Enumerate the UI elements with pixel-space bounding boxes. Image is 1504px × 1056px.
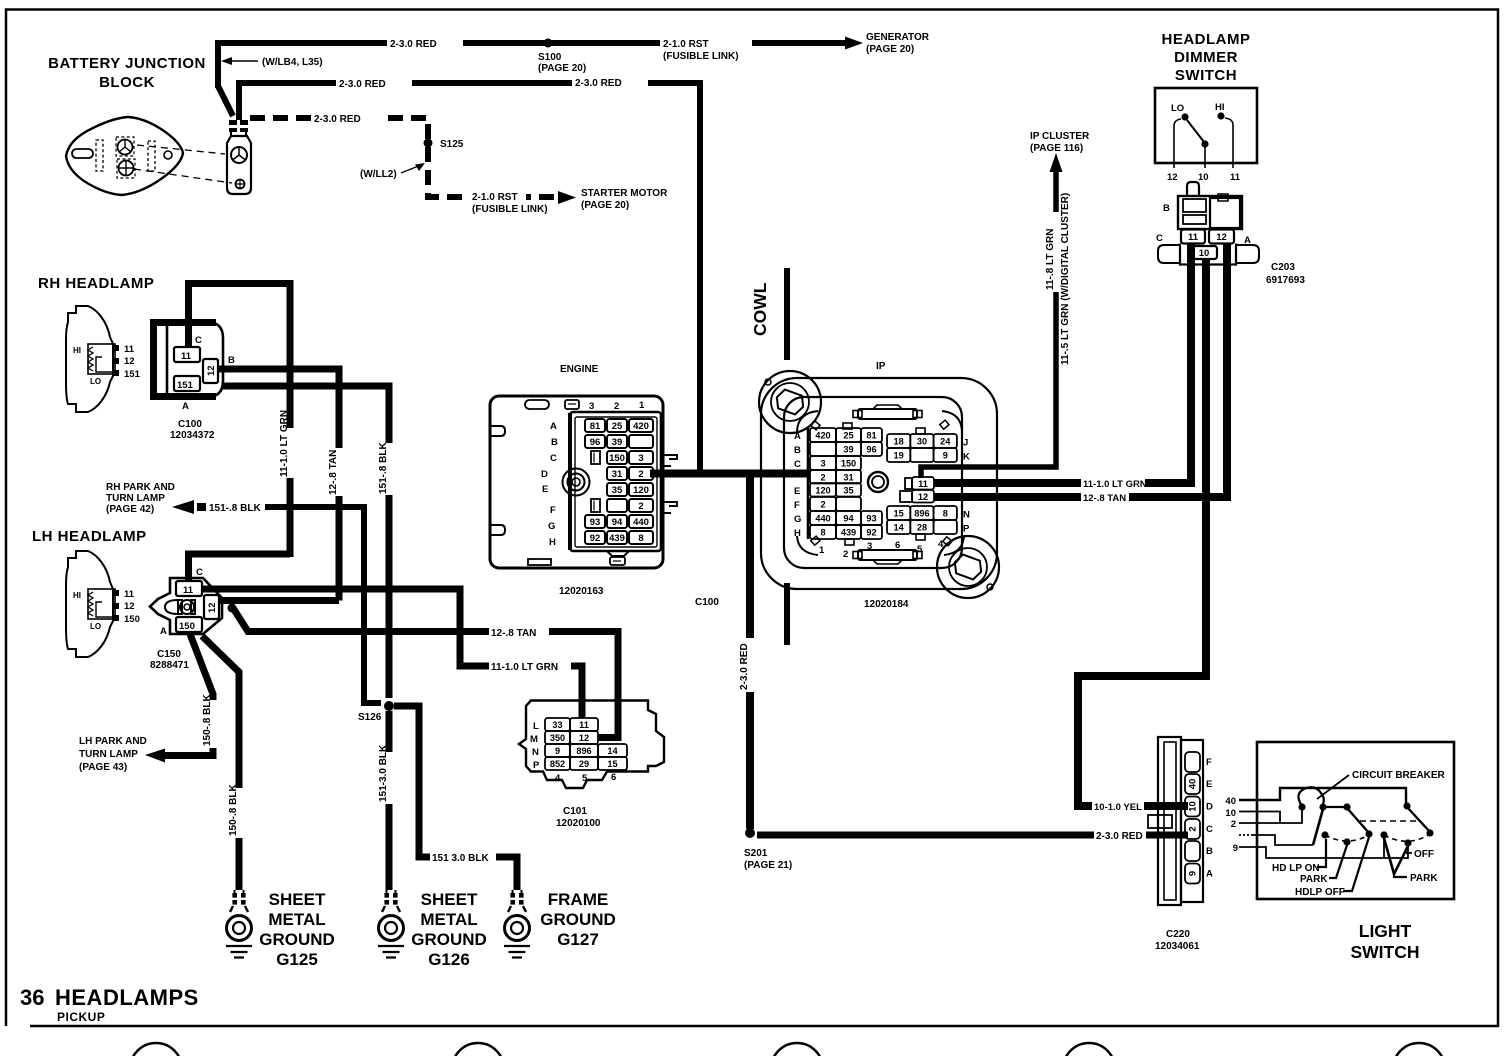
RH HEADLAMP title <box>38 275 154 292</box>
connector C203 <box>1156 182 1305 286</box>
svg-text:31: 31 <box>612 469 623 480</box>
svg-text:12: 12 <box>1216 232 1227 243</box>
svg-text:35: 35 <box>843 485 853 495</box>
svg-text:K: K <box>963 452 970 463</box>
svg-text:HEADLAMPS: HEADLAMPS <box>55 985 199 1010</box>
light switch internal wiring <box>1239 787 1434 858</box>
svg-text:H: H <box>794 528 801 539</box>
wire 12 TAN: corner into LH pin 12, splice dot, branch to C101 <box>219 601 618 738</box>
svg-text:439: 439 <box>841 528 856 538</box>
svg-text:RH HEADLAMP: RH HEADLAMP <box>38 275 154 292</box>
OFF label <box>1406 849 1434 860</box>
svg-text:L: L <box>533 721 539 732</box>
IP lower N/P grid <box>887 506 970 540</box>
svg-text:151-.8 BLK: 151-.8 BLK <box>378 442 389 494</box>
battery junction block body <box>66 117 183 195</box>
svg-text:9: 9 <box>943 451 948 461</box>
svg-text:5: 5 <box>917 544 923 555</box>
svg-text:94: 94 <box>843 514 854 524</box>
svg-text:29: 29 <box>579 759 589 769</box>
wire 2-3.0 RED battery to engine feed (corner x700) <box>239 75 700 472</box>
wire 10-1.0 YEL dimmer pin 10 to C220 <box>1078 259 1206 813</box>
IP part number <box>864 599 909 610</box>
svg-text:M: M <box>530 734 538 745</box>
svg-text:420: 420 <box>815 431 830 441</box>
svg-text:STARTER MOTOR: STARTER MOTOR <box>581 188 668 199</box>
svg-text:14: 14 <box>894 523 905 533</box>
ground G127 <box>504 890 616 958</box>
svg-text:GENERATOR: GENERATOR <box>866 32 930 43</box>
svg-text:12020100: 12020100 <box>556 818 601 829</box>
svg-text:439: 439 <box>609 533 625 544</box>
svg-text:6: 6 <box>895 540 900 551</box>
connector C220 <box>1148 737 1213 952</box>
svg-text:4: 4 <box>555 773 561 784</box>
RH headlamp bulb <box>66 306 141 412</box>
svg-text:11: 11 <box>124 589 135 600</box>
svg-text:CIRCUIT BREAKER: CIRCUIT BREAKER <box>1352 770 1446 781</box>
svg-text:151-3.0 BLK: 151-3.0 BLK <box>378 744 389 802</box>
svg-text:896: 896 <box>576 746 591 756</box>
IP left grid rows A-H <box>794 423 882 545</box>
leader (W/LB4,L35) <box>221 57 323 68</box>
svg-text:B: B <box>228 355 235 366</box>
ENGINE part number <box>559 586 604 597</box>
wire 12-.8 TAN dimmer pin 12 to IP <box>934 243 1227 504</box>
svg-text:2: 2 <box>843 549 848 560</box>
svg-text:12-.8 TAN: 12-.8 TAN <box>491 628 536 639</box>
svg-text:D: D <box>541 469 548 480</box>
svg-text:C100: C100 <box>178 419 202 430</box>
svg-text:150: 150 <box>841 459 856 469</box>
svg-text:H: H <box>549 537 556 548</box>
RH park and turn lamp arrow <box>106 482 381 703</box>
svg-text:3: 3 <box>820 459 825 469</box>
wire 11 GRN: RH C100 pin 11 up/over/down <box>189 284 298 558</box>
svg-text:(PAGE 43): (PAGE 43) <box>79 762 127 773</box>
C100 bulkhead label <box>695 597 719 608</box>
svg-text:PARK: PARK <box>1300 874 1328 885</box>
svg-text:93: 93 <box>590 517 601 528</box>
svg-text:12-.8 TAN: 12-.8 TAN <box>328 450 339 495</box>
svg-text:30: 30 <box>917 437 927 447</box>
connector C101 <box>519 701 664 830</box>
HDLP OFF label <box>1295 837 1369 898</box>
svg-text:24: 24 <box>940 437 951 447</box>
svg-text:C: C <box>196 567 203 578</box>
svg-text:11: 11 <box>1230 172 1241 183</box>
dashed wire 2-3.0 RED to S125 <box>250 111 668 215</box>
IP bottom pin numbers <box>819 539 944 560</box>
svg-text:2-3.0 RED: 2-3.0 RED <box>1096 831 1143 842</box>
svg-text:RH PARK AND: RH PARK AND <box>106 482 175 493</box>
svg-text:C220: C220 <box>1166 929 1190 940</box>
wire 151 3.0 BLK S126 branch to ground G127 <box>394 706 517 890</box>
svg-text:350: 350 <box>550 733 565 743</box>
svg-text:3: 3 <box>867 541 872 552</box>
svg-text:F: F <box>550 505 556 516</box>
svg-text:8: 8 <box>638 533 643 544</box>
svg-text:120: 120 <box>815 485 830 495</box>
svg-text:COWL: COWL <box>750 282 770 336</box>
svg-text:F: F <box>1206 757 1212 768</box>
svg-text:B: B <box>551 437 558 448</box>
svg-text:(W/LL2): (W/LL2) <box>360 169 397 180</box>
svg-text:(PAGE 21): (PAGE 21) <box>744 860 792 871</box>
svg-text:C: C <box>1156 233 1163 244</box>
splice S126 <box>358 701 394 723</box>
svg-text:2: 2 <box>1231 819 1236 830</box>
svg-text:F: F <box>794 500 800 511</box>
svg-text:METAL: METAL <box>268 910 325 929</box>
svg-text:S125: S125 <box>440 139 464 150</box>
svg-text:2: 2 <box>638 469 643 480</box>
svg-text:35: 35 <box>612 485 623 496</box>
svg-text:2-3.0 RED: 2-3.0 RED <box>339 79 386 90</box>
svg-text:BLOCK: BLOCK <box>99 74 155 91</box>
svg-text:15: 15 <box>894 509 904 519</box>
svg-text:19: 19 <box>894 451 904 461</box>
svg-text:(PAGE 42): (PAGE 42) <box>106 504 154 515</box>
svg-text:LO: LO <box>90 622 101 631</box>
ground G126 <box>378 890 487 969</box>
svg-text:LO: LO <box>1171 103 1184 114</box>
svg-text:150: 150 <box>179 621 195 632</box>
svg-text:D: D <box>1206 802 1213 813</box>
svg-text:C150: C150 <box>157 649 181 660</box>
svg-text:2: 2 <box>820 472 825 482</box>
svg-text:10: 10 <box>1188 801 1199 812</box>
svg-text:A: A <box>794 431 801 442</box>
svg-text:92: 92 <box>590 533 601 544</box>
svg-text:31: 31 <box>843 472 853 482</box>
battery terminal lug <box>227 120 251 194</box>
svg-text:420: 420 <box>633 421 649 432</box>
svg-text:A: A <box>160 626 167 637</box>
svg-text:25: 25 <box>612 421 623 432</box>
LH headlamp bulb <box>66 551 140 657</box>
svg-text:LH PARK AND: LH PARK AND <box>79 736 147 747</box>
svg-text:(W/LB4, L35): (W/LB4, L35) <box>262 57 323 68</box>
ENGINE label <box>560 364 599 375</box>
wire 150 BLK branch down to ground G125 <box>202 636 246 890</box>
svg-text:12-.8 TAN: 12-.8 TAN <box>1083 493 1126 504</box>
svg-text:SHEET: SHEET <box>269 890 326 909</box>
wire 2-3.0 RED battery to S100/generator <box>218 32 930 116</box>
svg-text:2-3.0 RED: 2-3.0 RED <box>390 39 437 50</box>
COWL bulkhead line and label <box>750 268 787 645</box>
svg-text:B: B <box>794 445 801 456</box>
IP right J/K grid <box>887 428 970 463</box>
svg-text:15: 15 <box>607 759 617 769</box>
wire 2-3.0 RED engine D to IP D with S201 branch <box>650 474 1188 872</box>
svg-text:FRAME: FRAME <box>548 890 608 909</box>
light switch terminals <box>1225 796 1238 854</box>
svg-text:2: 2 <box>614 401 619 412</box>
svg-text:B: B <box>1206 846 1213 857</box>
svg-text:GROUND: GROUND <box>540 910 616 929</box>
svg-text:2: 2 <box>820 500 825 510</box>
svg-text:LO: LO <box>90 377 101 386</box>
svg-text:PARK: PARK <box>1410 873 1438 884</box>
svg-text:2-3.0 RED: 2-3.0 RED <box>575 78 622 89</box>
svg-text:C: C <box>1206 824 1213 835</box>
LH HEADLAMP title <box>32 528 147 545</box>
svg-text:1: 1 <box>639 400 645 411</box>
svg-text:G: G <box>794 514 801 525</box>
svg-text:S201: S201 <box>744 848 768 859</box>
wire 150 BLK branch to LH park arrow <box>79 634 220 773</box>
svg-text:12: 12 <box>207 602 218 613</box>
svg-text:(FUSIBLE LINK): (FUSIBLE LINK) <box>663 51 739 62</box>
headlamp dimmer switch title <box>1162 31 1251 84</box>
svg-text:2: 2 <box>638 501 643 512</box>
IP connector outer body <box>759 361 999 598</box>
light switch title <box>1350 921 1419 962</box>
svg-text:(FUSIBLE LINK): (FUSIBLE LINK) <box>472 204 548 215</box>
wire to IP cluster with arrow <box>921 131 1090 478</box>
svg-text:92: 92 <box>866 528 876 538</box>
ENGINE fuse block outer body <box>490 396 663 568</box>
svg-text:12: 12 <box>1167 172 1178 183</box>
svg-text:6917693: 6917693 <box>1266 275 1305 286</box>
svg-text:12034061: 12034061 <box>1155 941 1200 952</box>
svg-text:2: 2 <box>1188 826 1199 831</box>
svg-text:94: 94 <box>612 517 623 528</box>
svg-text:G: G <box>548 521 555 532</box>
svg-text:12020184: 12020184 <box>864 599 909 610</box>
wire 11 GRN: down into LH pin 11 and out right to C101 <box>189 554 583 718</box>
svg-text:N: N <box>963 510 970 521</box>
svg-text:TURN LAMP: TURN LAMP <box>79 749 138 760</box>
svg-text:440: 440 <box>815 514 830 524</box>
svg-text:11-.8 LT GRN: 11-.8 LT GRN <box>1045 229 1056 291</box>
svg-text:E: E <box>794 486 800 497</box>
svg-text:3: 3 <box>589 401 594 412</box>
svg-text:81: 81 <box>590 421 601 432</box>
svg-text:BATTERY JUNCTION: BATTERY JUNCTION <box>48 55 206 72</box>
svg-text:C203: C203 <box>1271 262 1295 273</box>
svg-text:OFF: OFF <box>1414 849 1434 860</box>
IP pins 11/12 boxes <box>900 477 934 503</box>
svg-text:J: J <box>963 438 968 449</box>
svg-text:11-1.0 LT GRN: 11-1.0 LT GRN <box>1083 479 1147 490</box>
svg-text:E: E <box>1206 779 1212 790</box>
svg-text:150: 150 <box>124 614 140 625</box>
svg-text:150: 150 <box>609 453 625 464</box>
arrow to generator <box>845 37 863 50</box>
arrow to starter motor <box>470 190 526 202</box>
svg-text:12: 12 <box>124 601 135 612</box>
svg-text:SWITCH: SWITCH <box>1350 942 1419 962</box>
svg-text:151: 151 <box>177 380 194 391</box>
svg-text:(PAGE 116): (PAGE 116) <box>1030 143 1083 154</box>
connector C100 (RH headlamp) <box>154 322 236 441</box>
svg-text:3: 3 <box>638 453 643 464</box>
light switch box <box>1257 742 1454 899</box>
svg-text:11: 11 <box>1188 232 1199 243</box>
svg-text:11-1.0 LT GRN: 11-1.0 LT GRN <box>279 410 290 477</box>
svg-text:9: 9 <box>555 746 560 756</box>
svg-text:2-1.0 RST: 2-1.0 RST <box>472 192 518 203</box>
svg-text:10-1.0 YEL: 10-1.0 YEL <box>1094 802 1142 813</box>
battery junction block title <box>48 55 206 91</box>
svg-text:10: 10 <box>1199 248 1210 259</box>
svg-text:40: 40 <box>1225 796 1236 807</box>
svg-text:10: 10 <box>1198 172 1209 183</box>
svg-text:P: P <box>963 524 970 535</box>
svg-text:S126: S126 <box>358 712 382 723</box>
svg-text:C100: C100 <box>695 597 719 608</box>
svg-text:12: 12 <box>206 365 217 376</box>
svg-text:120: 120 <box>633 485 649 496</box>
svg-text:LIGHT: LIGHT <box>1359 921 1412 941</box>
svg-text:N: N <box>532 747 539 758</box>
svg-text:151: 151 <box>124 369 141 380</box>
svg-text:93: 93 <box>866 514 876 524</box>
svg-text:8: 8 <box>820 528 825 538</box>
binder punch holes bottom <box>130 1043 1445 1056</box>
svg-text:2-3.0 RED: 2-3.0 RED <box>314 114 361 125</box>
svg-text:8288471: 8288471 <box>150 660 189 671</box>
svg-text:B: B <box>1163 203 1170 214</box>
svg-text:4: 4 <box>938 539 944 550</box>
ENGINE fuse cells <box>585 419 653 544</box>
svg-text:A: A <box>550 421 557 432</box>
svg-text:11: 11 <box>124 344 135 355</box>
svg-text:440: 440 <box>633 517 649 528</box>
svg-text:PICKUP: PICKUP <box>57 1010 105 1024</box>
svg-text:A: A <box>1206 869 1213 880</box>
svg-text:11-.5 LT GRN (W/DIGITAL CLUSTE: 11-.5 LT GRN (W/DIGITAL CLUSTER) <box>1060 193 1071 365</box>
svg-text:9: 9 <box>1188 871 1199 876</box>
svg-text:A: A <box>182 401 189 412</box>
svg-text:5: 5 <box>582 773 588 784</box>
svg-text:HI: HI <box>73 346 81 355</box>
ENGINE fuse panel inner <box>570 412 677 551</box>
svg-text:G125: G125 <box>276 950 318 969</box>
svg-text:HEADLAMP: HEADLAMP <box>1162 31 1251 48</box>
HD LP ON label <box>1272 839 1326 874</box>
svg-text:36: 36 <box>20 985 44 1010</box>
svg-text:LH HEADLAMP: LH HEADLAMP <box>32 528 147 545</box>
svg-text:39: 39 <box>612 437 623 448</box>
svg-text:HI: HI <box>1215 102 1225 113</box>
svg-text:S100: S100 <box>538 52 562 63</box>
wire 11-1.0 LT GRN dimmer pin 11 to IP <box>934 243 1191 490</box>
dashed leader lines block to terminal <box>134 145 232 183</box>
svg-text:IP: IP <box>876 361 886 372</box>
svg-text:39: 39 <box>843 445 853 455</box>
svg-text:HD LP ON: HD LP ON <box>1272 863 1320 874</box>
svg-text:9: 9 <box>1233 843 1238 854</box>
svg-text:SWITCH: SWITCH <box>1175 67 1237 84</box>
PARK label left <box>1300 845 1347 885</box>
svg-text:12034372: 12034372 <box>170 430 215 441</box>
svg-text:1: 1 <box>819 545 825 556</box>
svg-text:12020163: 12020163 <box>559 586 604 597</box>
svg-text:ENGINE: ENGINE <box>560 364 599 375</box>
svg-text:HI: HI <box>73 591 81 600</box>
svg-text:150-.8 BLK: 150-.8 BLK <box>202 694 213 746</box>
svg-text:(PAGE 20): (PAGE 20) <box>581 200 629 211</box>
svg-text:150-.8 BLK: 150-.8 BLK <box>228 784 239 836</box>
svg-text:852: 852 <box>550 759 565 769</box>
svg-text:(PAGE 20): (PAGE 20) <box>538 63 586 74</box>
svg-text:14: 14 <box>607 746 618 756</box>
svg-text:12: 12 <box>918 492 928 502</box>
svg-text:GROUND: GROUND <box>259 930 335 949</box>
svg-text:8: 8 <box>943 509 948 519</box>
svg-text:2-3.0 RED: 2-3.0 RED <box>739 643 750 690</box>
svg-text:TURN LAMP: TURN LAMP <box>106 493 165 504</box>
ground G125 <box>226 890 335 969</box>
svg-text:C: C <box>794 459 801 470</box>
svg-text:P: P <box>533 760 540 771</box>
page footer 36 HEADLAMPS PICKUP <box>20 985 199 1024</box>
wire 12 TAN: RH C100 pin 12 right and down <box>218 369 346 601</box>
svg-text:(PAGE 20): (PAGE 20) <box>866 44 914 55</box>
svg-text:6: 6 <box>611 772 616 783</box>
ENGINE mounting bolt <box>563 469 590 496</box>
svg-text:METAL: METAL <box>420 910 477 929</box>
svg-text:C: C <box>195 335 202 346</box>
svg-text:G127: G127 <box>557 930 599 949</box>
svg-text:IP CLUSTER: IP CLUSTER <box>1030 131 1090 142</box>
svg-text:28: 28 <box>917 523 927 533</box>
splice S100 <box>544 39 553 48</box>
svg-text:12: 12 <box>124 356 135 367</box>
svg-text:11-1.0 LT GRN: 11-1.0 LT GRN <box>491 662 558 673</box>
svg-text:11: 11 <box>183 585 194 596</box>
svg-text:GROUND: GROUND <box>411 930 487 949</box>
svg-text:12: 12 <box>579 733 589 743</box>
svg-text:33: 33 <box>552 720 562 730</box>
svg-text:C: C <box>550 453 557 464</box>
ENGINE row letters <box>541 421 558 548</box>
svg-text:151 3.0 BLK: 151 3.0 BLK <box>432 853 489 864</box>
svg-text:10: 10 <box>1225 808 1236 819</box>
PARK label right with V leader <box>1384 838 1438 884</box>
svg-text:896: 896 <box>914 509 929 519</box>
svg-text:18: 18 <box>894 437 904 447</box>
svg-text:81: 81 <box>866 431 876 441</box>
svg-text:96: 96 <box>590 437 601 448</box>
svg-text:11: 11 <box>579 720 589 730</box>
dimmer switch box <box>1155 88 1257 183</box>
svg-text:SHEET: SHEET <box>421 890 478 909</box>
svg-text:25: 25 <box>843 431 853 441</box>
svg-text:HDLP OFF: HDLP OFF <box>1295 887 1345 898</box>
connector C150 (LH headlamp) <box>150 567 222 671</box>
svg-text:151-.8 BLK: 151-.8 BLK <box>209 503 261 514</box>
splice S125 <box>424 139 433 148</box>
svg-text:G126: G126 <box>428 950 470 969</box>
wire 151-3.0 BLK S126 down to ground G126 <box>378 711 396 890</box>
circuit breaker label <box>1317 770 1446 799</box>
svg-text:11: 11 <box>181 351 192 362</box>
svg-text:2-1.0 RST: 2-1.0 RST <box>663 39 709 50</box>
svg-text:E: E <box>542 484 548 495</box>
svg-text:40: 40 <box>1188 779 1199 790</box>
svg-text:96: 96 <box>866 445 876 455</box>
svg-text:C101: C101 <box>563 806 587 817</box>
wire 151 BLK: RH C100 pin 151 right and down to S126 <box>223 386 396 698</box>
svg-text:DIMMER: DIMMER <box>1174 49 1238 66</box>
svg-text:11: 11 <box>918 479 928 489</box>
